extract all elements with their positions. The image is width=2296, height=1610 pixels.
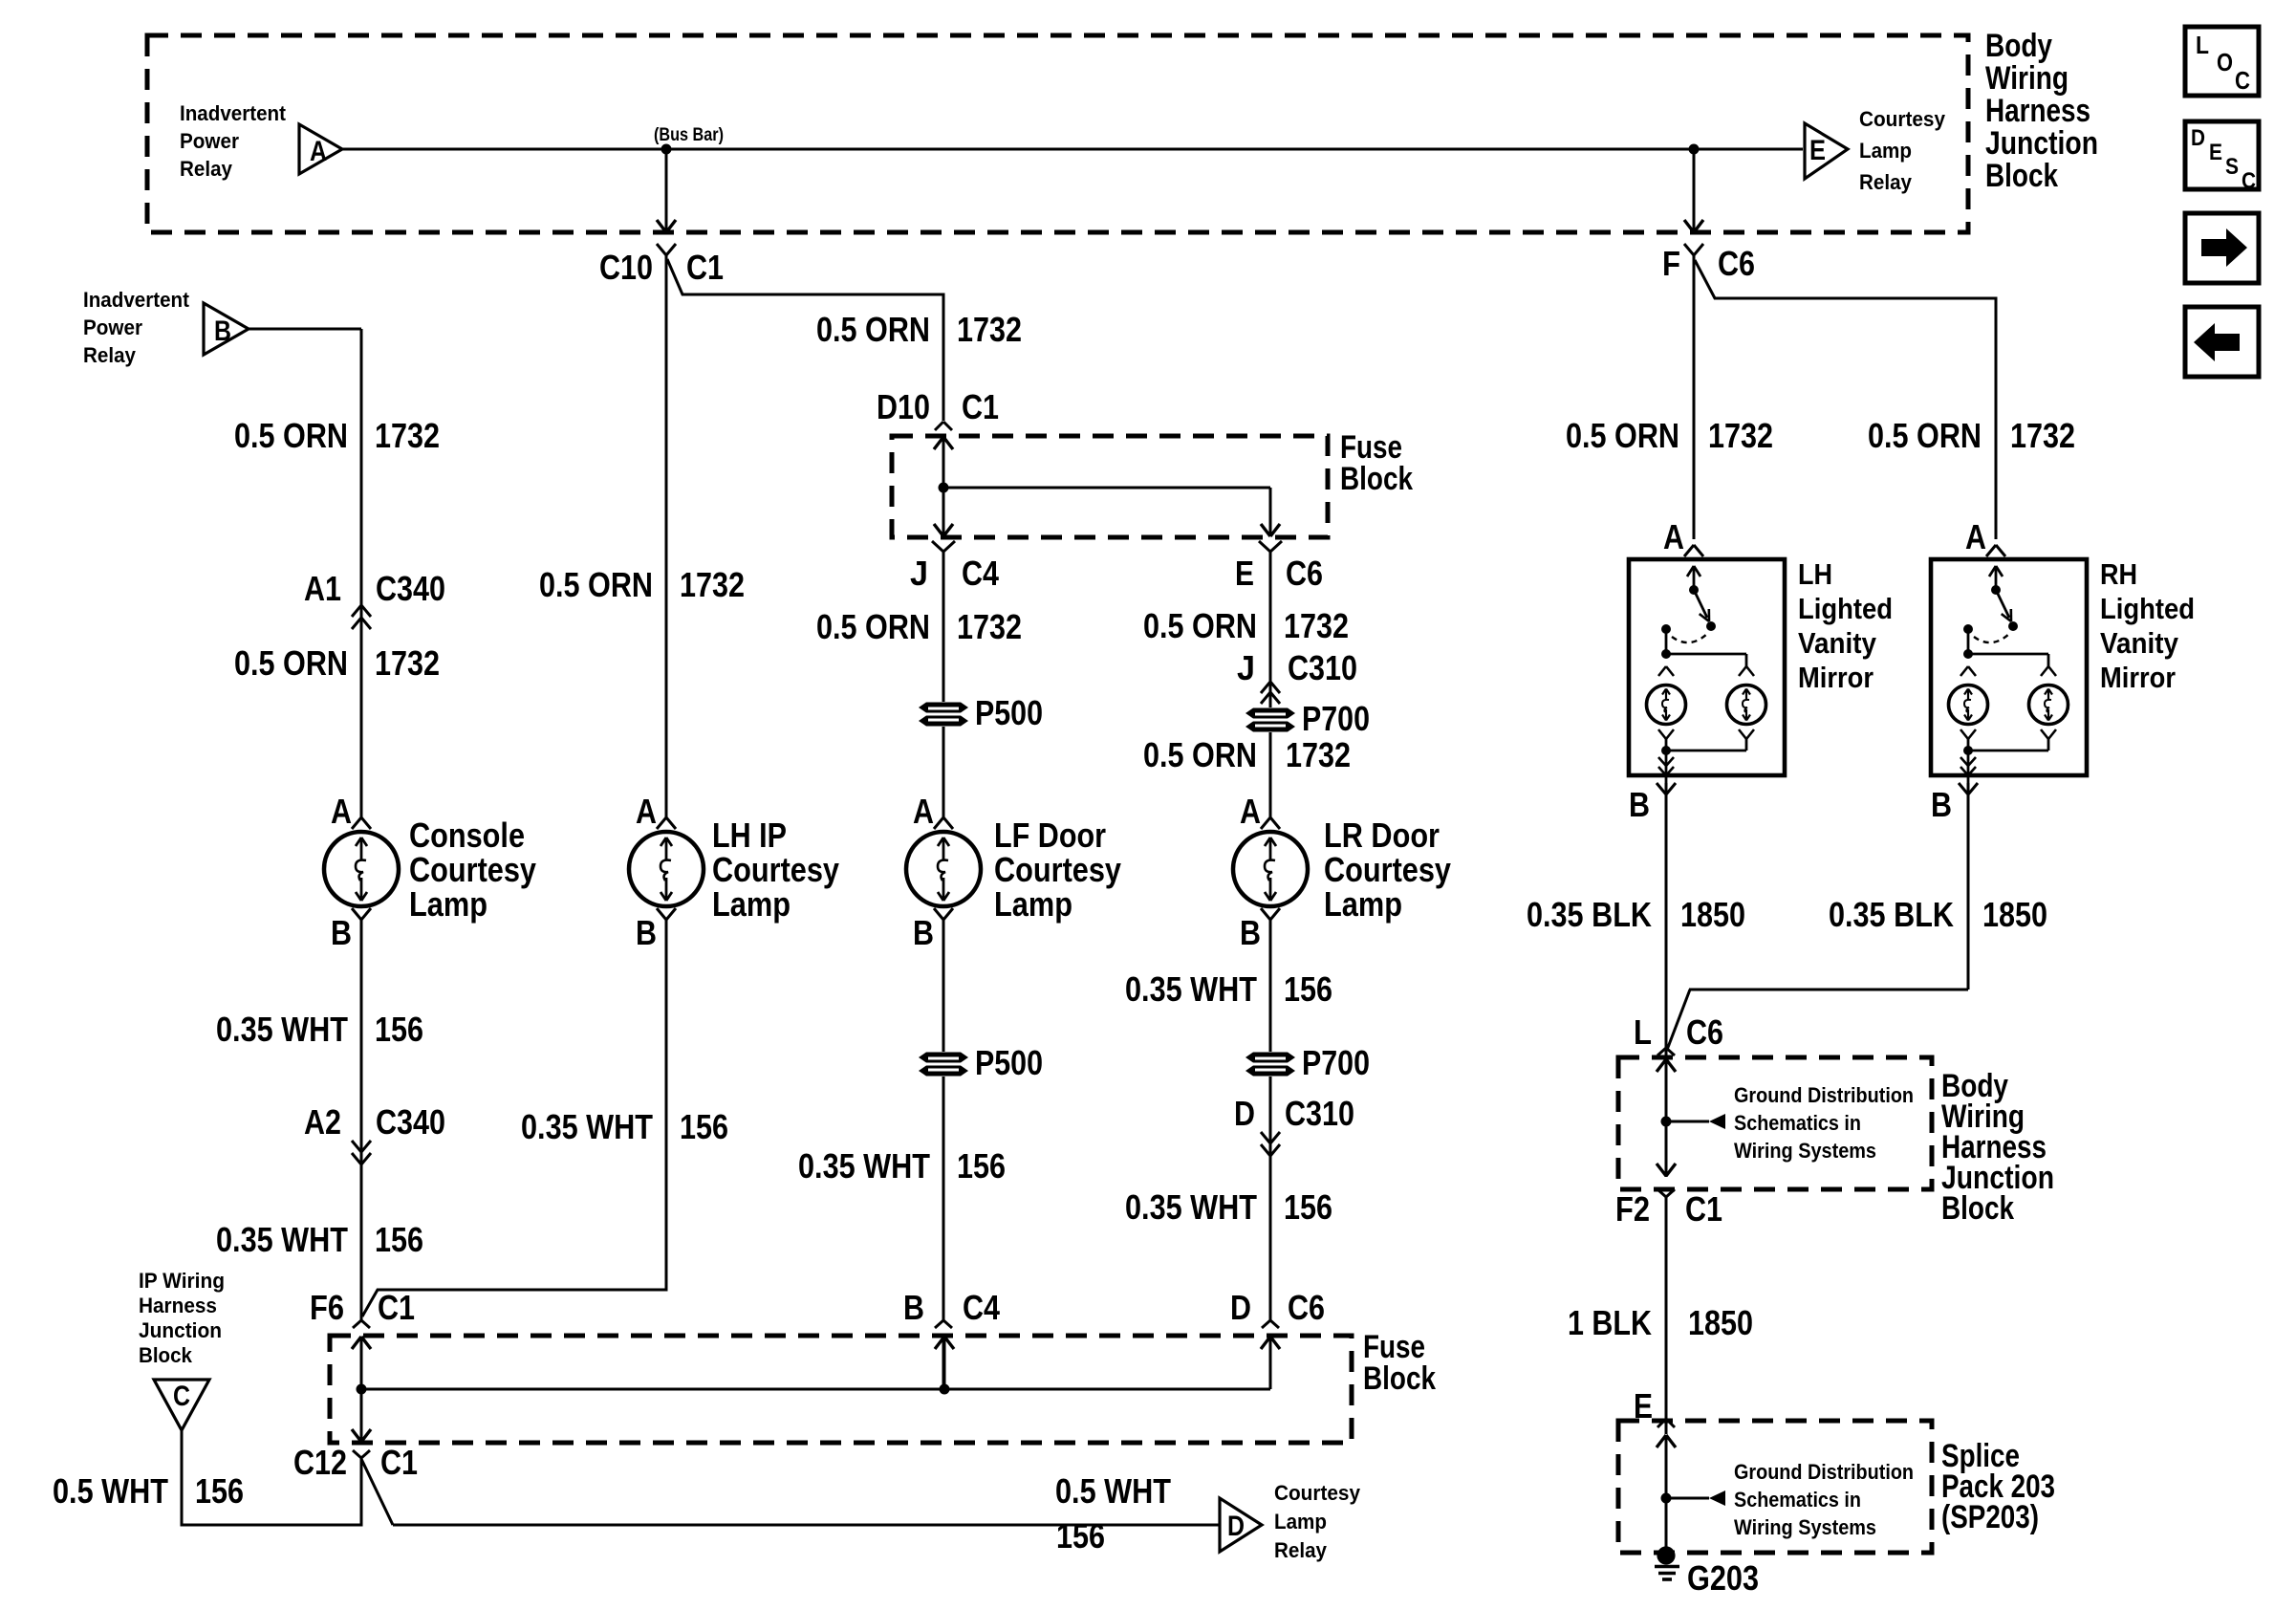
svg-text:Schematics in: Schematics in: [1734, 1111, 1861, 1135]
svg-text:F2: F2: [1615, 1189, 1650, 1229]
svg-text:P700: P700: [1302, 1043, 1370, 1082]
svg-text:0.5 WHT: 0.5 WHT: [53, 1471, 168, 1511]
svg-text:1732: 1732: [680, 565, 745, 604]
svg-text:Wiring Systems: Wiring Systems: [1734, 1139, 1876, 1163]
svg-text:J: J: [910, 554, 928, 593]
svg-text:L: L: [1634, 1012, 1652, 1052]
svg-text:A1: A1: [304, 569, 341, 608]
svg-text:B: B: [913, 913, 934, 952]
svg-text:1850: 1850: [1680, 895, 1745, 934]
svg-text:C: C: [2235, 66, 2250, 95]
svg-text:156: 156: [680, 1107, 728, 1146]
svg-text:RH: RH: [2100, 557, 2137, 591]
svg-text:Junction: Junction: [1985, 125, 2098, 162]
svg-text:C6: C6: [1286, 554, 1323, 593]
svg-text:D: D: [1227, 1511, 1245, 1542]
svg-text:1 BLK: 1 BLK: [1568, 1303, 1652, 1342]
svg-text:Console: Console: [409, 816, 525, 855]
svg-text:E: E: [1235, 554, 1254, 593]
svg-text:E: E: [1634, 1386, 1653, 1425]
svg-text:0.35 BLK: 0.35 BLK: [1527, 895, 1652, 934]
svg-text:P700: P700: [1302, 699, 1370, 738]
svg-text:C10: C10: [599, 248, 653, 287]
svg-text:0.5 ORN: 0.5 ORN: [234, 416, 348, 455]
svg-text:Mirror: Mirror: [2100, 661, 2176, 694]
svg-text:0.35 WHT: 0.35 WHT: [521, 1107, 653, 1146]
svg-text:D: D: [1234, 1094, 1255, 1133]
svg-text:C6: C6: [1288, 1288, 1325, 1327]
svg-text:0.35 BLK: 0.35 BLK: [1829, 895, 1954, 934]
svg-text:Body: Body: [1985, 28, 2052, 64]
svg-text:C310: C310: [1288, 648, 1357, 687]
svg-text:C1: C1: [378, 1288, 415, 1327]
svg-text:1732: 1732: [957, 310, 1022, 349]
svg-text:Lamp: Lamp: [712, 884, 791, 924]
svg-text:Lighted: Lighted: [1798, 592, 1893, 625]
svg-text:Vanity: Vanity: [1798, 626, 1877, 660]
svg-text:Courtesy: Courtesy: [409, 850, 536, 889]
svg-text:Relay: Relay: [180, 157, 233, 181]
svg-text:C1: C1: [1685, 1189, 1722, 1229]
svg-text:Vanity: Vanity: [2100, 626, 2179, 660]
svg-text:Courtesy: Courtesy: [1324, 850, 1451, 889]
svg-text:Relay: Relay: [1859, 170, 1913, 194]
svg-text:0.5 ORN: 0.5 ORN: [539, 565, 653, 604]
svg-text:Power: Power: [180, 129, 239, 153]
svg-text:156: 156: [1284, 1187, 1332, 1227]
svg-text:F6: F6: [310, 1288, 344, 1327]
svg-text:Block: Block: [1941, 1190, 2014, 1227]
svg-text:P500: P500: [975, 693, 1043, 732]
svg-text:C340: C340: [376, 569, 445, 608]
svg-text:A: A: [913, 792, 934, 831]
svg-text:(SP203): (SP203): [1941, 1499, 2039, 1535]
svg-text:Lighted: Lighted: [2100, 592, 2195, 625]
svg-text:156: 156: [375, 1010, 423, 1049]
svg-text:0.35 WHT: 0.35 WHT: [798, 1146, 930, 1186]
svg-text:C310: C310: [1285, 1094, 1354, 1133]
svg-text:A: A: [331, 792, 352, 831]
svg-text:D: D: [1230, 1288, 1251, 1327]
svg-text:156: 156: [957, 1146, 1006, 1186]
svg-text:L: L: [2196, 31, 2209, 59]
svg-text:Block: Block: [1985, 158, 2058, 194]
svg-text:D10: D10: [877, 387, 930, 426]
svg-text:Harness: Harness: [1985, 93, 2090, 129]
svg-text:A: A: [1663, 517, 1684, 556]
svg-text:1732: 1732: [1286, 735, 1351, 774]
svg-text:Block: Block: [1363, 1360, 1436, 1397]
svg-text:C340: C340: [376, 1102, 445, 1142]
svg-text:A: A: [1965, 517, 1986, 556]
svg-text:1732: 1732: [375, 416, 440, 455]
svg-text:Courtesy: Courtesy: [1859, 107, 1946, 131]
svg-text:Ground Distribution: Ground Distribution: [1734, 1460, 1914, 1484]
svg-text:B: B: [1240, 913, 1261, 952]
svg-text:C: C: [173, 1381, 190, 1412]
svg-text:G203: G203: [1687, 1558, 1759, 1598]
svg-text:Mirror: Mirror: [1798, 661, 1874, 694]
svg-text:Block: Block: [139, 1343, 193, 1367]
svg-text:P500: P500: [975, 1043, 1043, 1082]
svg-text:IP Wiring: IP Wiring: [139, 1269, 225, 1293]
svg-text:Inadvertent: Inadvertent: [83, 288, 190, 312]
svg-text:0.5 ORN: 0.5 ORN: [234, 643, 348, 683]
svg-text:Ground Distribution: Ground Distribution: [1734, 1083, 1914, 1107]
svg-text:Schematics in: Schematics in: [1734, 1488, 1861, 1512]
svg-text:C6: C6: [1686, 1012, 1723, 1052]
svg-text:Power: Power: [83, 315, 142, 339]
svg-text:E: E: [1809, 135, 1826, 166]
svg-text:0.5 ORN: 0.5 ORN: [1868, 416, 1982, 455]
svg-text:A: A: [636, 792, 657, 831]
svg-text:156: 156: [375, 1220, 423, 1259]
svg-text:156: 156: [1284, 969, 1332, 1009]
svg-text:A2: A2: [304, 1102, 341, 1142]
svg-text:1732: 1732: [1708, 416, 1773, 455]
svg-text:1850: 1850: [1982, 895, 2047, 934]
svg-text:1732: 1732: [2010, 416, 2075, 455]
svg-text:0.5 ORN: 0.5 ORN: [1143, 735, 1257, 774]
svg-text:C1: C1: [380, 1443, 418, 1482]
svg-text:LF Door: LF Door: [994, 816, 1106, 855]
svg-text:1732: 1732: [957, 607, 1022, 646]
svg-text:Relay: Relay: [1274, 1538, 1328, 1562]
svg-text:Lamp: Lamp: [1324, 884, 1402, 924]
svg-text:Lamp: Lamp: [1274, 1510, 1327, 1534]
svg-text:D: D: [2191, 125, 2205, 151]
svg-text:B: B: [1629, 785, 1650, 824]
svg-text:C6: C6: [1718, 244, 1755, 283]
svg-text:C: C: [2242, 168, 2256, 194]
svg-text:1732: 1732: [375, 643, 440, 683]
svg-text:0.35 WHT: 0.35 WHT: [1125, 1187, 1257, 1227]
svg-text:S: S: [2225, 154, 2239, 180]
svg-text:0.5 ORN: 0.5 ORN: [816, 607, 930, 646]
svg-text:F: F: [1662, 244, 1680, 283]
svg-text:B: B: [1931, 785, 1952, 824]
svg-text:O: O: [2217, 48, 2233, 76]
svg-text:0.5 WHT: 0.5 WHT: [1055, 1471, 1171, 1511]
svg-text:Junction: Junction: [139, 1318, 222, 1342]
svg-text:1850: 1850: [1688, 1303, 1753, 1342]
svg-text:Lamp: Lamp: [1859, 139, 1912, 163]
svg-text:J: J: [1237, 648, 1255, 687]
svg-text:0.35 WHT: 0.35 WHT: [216, 1010, 348, 1049]
svg-text:Harness: Harness: [139, 1294, 217, 1317]
svg-text:Block: Block: [1340, 461, 1413, 497]
svg-text:156: 156: [1056, 1516, 1105, 1556]
svg-text:B: B: [636, 913, 657, 952]
svg-text:1732: 1732: [1284, 606, 1349, 645]
svg-text:E: E: [2209, 140, 2222, 165]
svg-text:156: 156: [195, 1471, 244, 1511]
svg-text:LH: LH: [1798, 557, 1832, 591]
svg-text:Courtesy: Courtesy: [1274, 1481, 1361, 1505]
svg-text:(Bus Bar): (Bus Bar): [654, 125, 724, 145]
svg-text:C1: C1: [686, 248, 724, 287]
svg-text:C4: C4: [962, 554, 999, 593]
svg-text:Lamp: Lamp: [994, 884, 1072, 924]
svg-text:0.5 ORN: 0.5 ORN: [1566, 416, 1679, 455]
svg-text:Lamp: Lamp: [409, 884, 487, 924]
svg-text:B: B: [331, 913, 352, 952]
svg-text:Relay: Relay: [83, 343, 137, 367]
svg-text:0.35 WHT: 0.35 WHT: [216, 1220, 348, 1259]
svg-text:C12: C12: [293, 1443, 347, 1482]
svg-text:0.5 ORN: 0.5 ORN: [1143, 606, 1257, 645]
svg-text:LH IP: LH IP: [712, 816, 787, 855]
svg-text:C4: C4: [963, 1288, 1000, 1327]
svg-text:B: B: [903, 1288, 924, 1327]
svg-text:Courtesy: Courtesy: [712, 850, 839, 889]
svg-text:A: A: [1240, 792, 1261, 831]
svg-text:Inadvertent: Inadvertent: [180, 101, 287, 125]
svg-text:LR Door: LR Door: [1324, 816, 1440, 855]
svg-text:Courtesy: Courtesy: [994, 850, 1121, 889]
svg-text:Wiring: Wiring: [1985, 60, 2069, 97]
svg-text:A: A: [310, 136, 327, 167]
svg-text:B: B: [214, 315, 231, 347]
svg-text:0.5 ORN: 0.5 ORN: [816, 310, 930, 349]
svg-text:0.35 WHT: 0.35 WHT: [1125, 969, 1257, 1009]
svg-text:Wiring Systems: Wiring Systems: [1734, 1515, 1876, 1539]
svg-text:C1: C1: [962, 387, 999, 426]
